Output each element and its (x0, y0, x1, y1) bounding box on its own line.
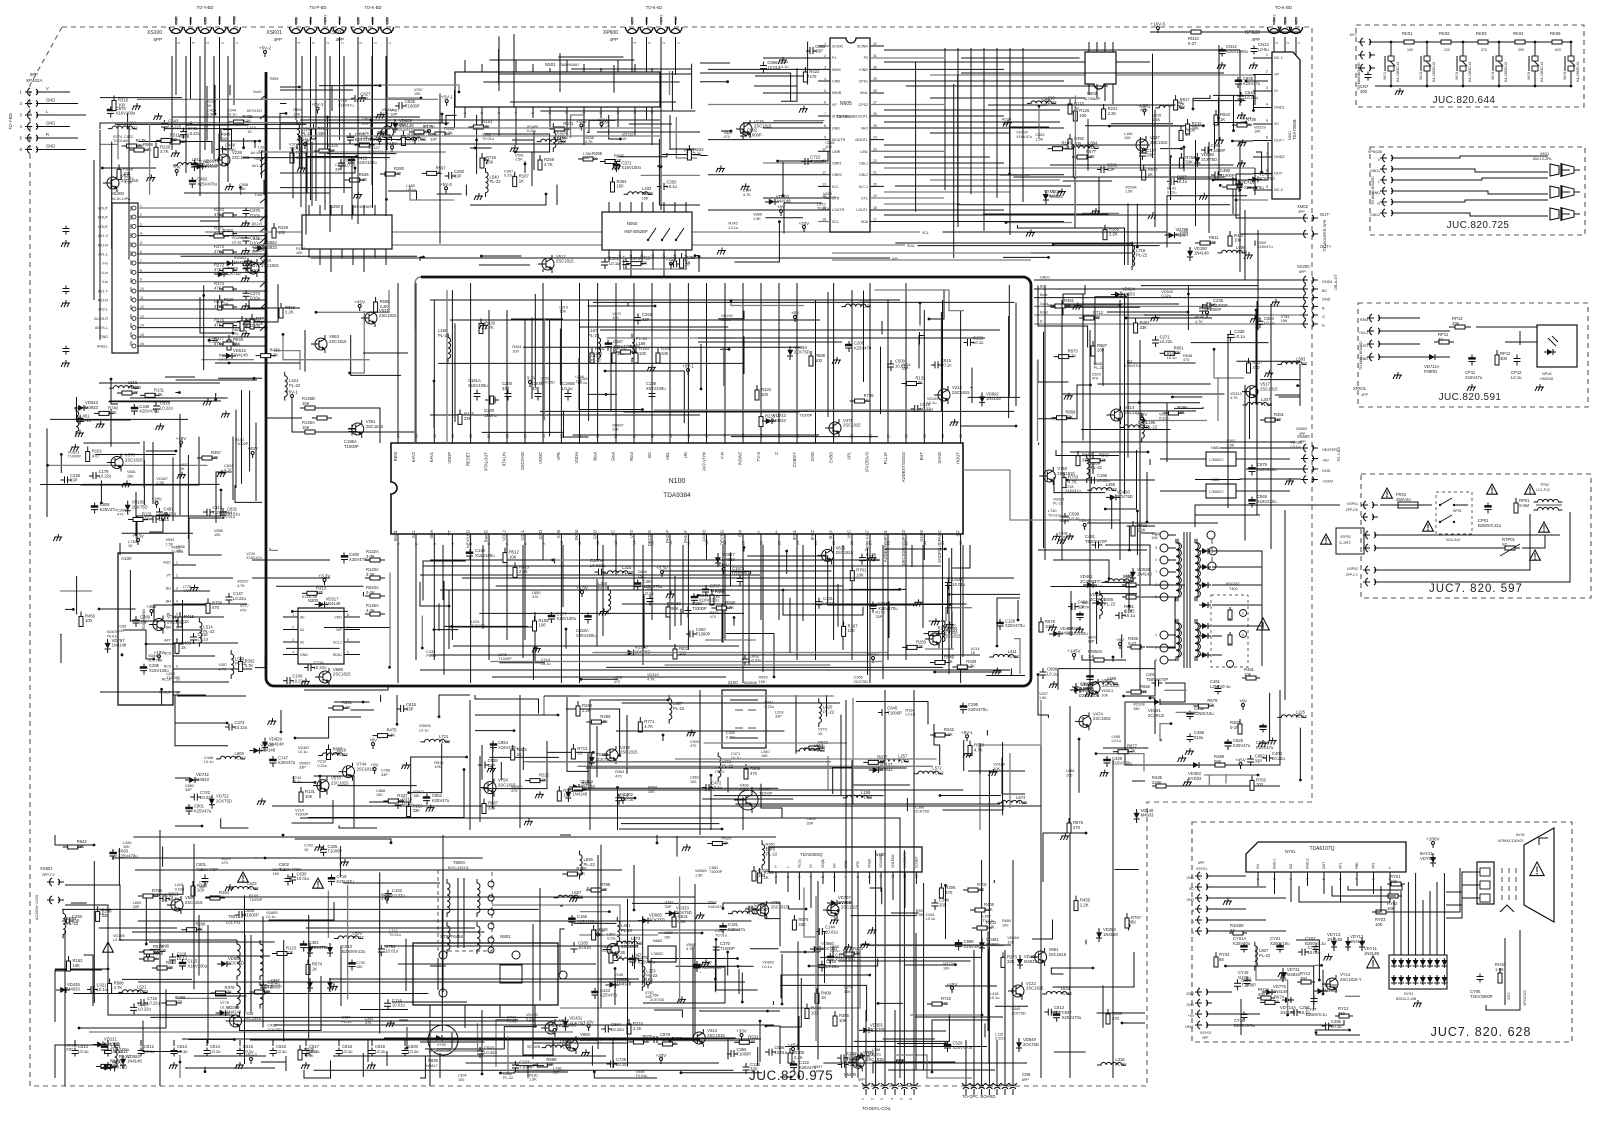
wire (1003, 256, 1049, 258)
capacitor C486 (1189, 734, 1191, 737)
svg-text:IFVO/SVO: IFVO/SVO (865, 451, 870, 472)
wire (351, 709, 374, 711)
CRT gun 2 (1480, 881, 1490, 889)
svg-text:470: 470 (615, 774, 621, 778)
key switch SK03 (KA-1965D-41) (1462, 42, 1464, 56)
svg-text:1K: 1K (592, 156, 597, 161)
wire (1038, 443, 1040, 446)
svg-text:M4933: M4933 (1287, 972, 1300, 977)
capacitor (1042, 668, 1044, 672)
capacitor (electrolytic) (104, 1043, 106, 1047)
wire (1097, 1012, 1145, 1014)
resistor (380, 173, 385, 175)
svg-text:2SC1815: 2SC1815 (620, 750, 638, 755)
wire (routing) (420, 574, 760, 576)
diode (211, 795, 213, 799)
N400 pin 11 (VOLENK) (892, 872, 894, 900)
svg-text:470: 470 (222, 861, 228, 865)
wire (1054, 1051, 1086, 1053)
wire (498, 49, 500, 84)
N605 pin 4 (CIN0) (818, 80, 830, 82)
wire (698, 341, 842, 343)
resistor (843, 621, 845, 626)
capacitor (electrolytic) (872, 602, 874, 606)
wire (1299, 728, 1301, 780)
svg-text:R650: R650 (1002, 919, 1011, 923)
T400 core (1183, 532, 1185, 668)
N100 pin 52 (Gout) top stub (615, 283, 617, 443)
resistor (902, 646, 907, 648)
svg-text:OUT-: OUT- (1320, 212, 1331, 217)
svg-text:LED: LED (386, 17, 390, 24)
N605 pin 1 (SCINC) (818, 45, 830, 47)
power flag (597, 933, 600, 936)
svg-text:470: 470 (809, 74, 817, 79)
svg-text:2SC1815: 2SC1815 (1049, 952, 1067, 957)
tuner A100 pin 1 (AGC) (173, 564, 196, 566)
wire (1111, 497, 1113, 529)
inductor (1097, 1062, 1126, 1065)
capacitor (637, 314, 639, 318)
wire (1160, 739, 1162, 741)
wire (1100, 593, 1137, 595)
N601 pin 5 (VC) (1253, 123, 1272, 125)
svg-text:0.22u: 0.22u (527, 129, 537, 133)
wire (434, 629, 458, 631)
wire (189, 518, 225, 555)
power +5V-2 flag (264, 51, 267, 54)
key switch SK02 (KA-1965D-41) (1426, 42, 1428, 56)
svg-text:10K: 10K (397, 798, 405, 803)
capacitor (323, 845, 325, 849)
svg-text:XS801: XS801 (40, 866, 53, 871)
N100 pin 1 (Brsd1) bottom stub (397, 534, 399, 683)
N605 pin 18 (LOUTL) (870, 209, 1004, 211)
ground (1328, 954, 1330, 957)
N100 pin 46 (V-in) top stub (724, 283, 726, 443)
ground (1182, 755, 1184, 758)
svg-text:L0.1u: L0.1u (144, 1049, 155, 1054)
T400 rectifier diode (1199, 550, 1202, 552)
connector X5300 pin 3 (LOUT) (138, 225, 266, 227)
resistor (586, 889, 591, 891)
svg-text:PL-22: PL-22 (1296, 361, 1308, 366)
svg-text:GND2: GND2 (919, 529, 924, 541)
resistor (1175, 95, 1177, 100)
svg-text:VK05: VK05 (1527, 72, 1531, 80)
svg-text:NY01: NY01 (1285, 849, 1296, 854)
wire (406, 1027, 408, 1048)
svg-text:GND: GND (1186, 1003, 1194, 1007)
capacitor CY17 (1313, 996, 1315, 999)
resistor (793, 915, 795, 920)
svg-text:2CK75D: 2CK75D (870, 1027, 886, 1032)
svg-text:GND: GND (46, 98, 55, 103)
wire (1246, 80, 1268, 82)
svg-text:L0.1u: L0.1u (729, 226, 739, 230)
N605 pin 5 (MINR) (763, 92, 830, 94)
svg-text:620: 620 (1555, 48, 1561, 52)
wire (audio routing) (884, 167, 1255, 169)
wire (945, 885, 947, 939)
svg-text:REM: REM (1360, 318, 1368, 322)
diode (1045, 190, 1047, 194)
wire (540, 110, 695, 112)
svg-text:L0.1u: L0.1u (1234, 334, 1245, 339)
capacitor (133, 1003, 135, 1007)
inductor (199, 618, 202, 647)
ground (681, 996, 683, 999)
svg-text:11: 11 (891, 874, 895, 878)
svg-text:33P: 33P (133, 905, 140, 909)
svg-text:100: 100 (848, 628, 856, 633)
resistor (612, 177, 614, 182)
resistor (240, 657, 242, 662)
wire (945, 985, 997, 987)
T400 focus pot (1240, 610, 1247, 617)
ground (1275, 299, 1277, 302)
svg-text:L0.22u: L0.22u (1272, 756, 1285, 761)
resistor (80, 612, 82, 617)
svg-text:1K: 1K (622, 137, 627, 141)
wire (280, 86, 299, 88)
svg-text:33K: 33K (1274, 417, 1282, 422)
svg-text:VD126: VD126 (943, 962, 955, 966)
resistor (1077, 451, 1079, 456)
svg-text:56: 56 (542, 434, 546, 438)
N400 pin 2 (I-) (787, 872, 789, 892)
svg-text:L0.22u: L0.22u (233, 596, 246, 601)
resistor (209, 235, 214, 237)
N801 pin stub 2 (464, 1005, 466, 1028)
svg-text:L0.1u: L0.1u (541, 662, 551, 666)
svg-text:T1000P: T1000P (887, 710, 902, 715)
wire flyback out10 (1284, 510, 1286, 700)
N050 pin bottom 0 (608, 250, 610, 262)
svg-text:EW: EW (738, 530, 743, 537)
wire (127, 113, 129, 129)
wire (897, 1043, 946, 1045)
N100 pin 24 (IFIN2) bottom stub (815, 534, 817, 660)
svg-text:HEATER: HEATER (1322, 448, 1337, 452)
wire (221, 129, 260, 141)
capacitor left col (65, 226, 67, 229)
N100 pin 43 (C) top stub (778, 283, 780, 443)
svg-text:5: 5 (824, 89, 826, 93)
svg-text:L0.1u: L0.1u (1299, 1010, 1310, 1015)
ground (484, 157, 486, 160)
svg-text:T1000P: T1000P (737, 1052, 752, 1057)
svg-text:P1: P1 (832, 56, 836, 60)
T400 focus/screen divider (dashed box) (1211, 595, 1248, 667)
wire (1160, 724, 1171, 741)
N100 pin 42 (CVBS/Y) top stub (796, 283, 798, 443)
ground (651, 364, 653, 367)
svg-text:2.2K: 2.2K (966, 664, 975, 669)
svg-text:1.5K: 1.5K (695, 873, 703, 877)
svg-text:REM: REM (218, 16, 222, 24)
N400 pin 5 (VO(B)) (822, 872, 824, 884)
capacitor CY1B (1243, 1012, 1245, 1015)
resistor R461 (1122, 584, 1126, 586)
svg-text:33P: 33P (750, 1067, 758, 1072)
resistor (328, 707, 333, 709)
wire (367, 1039, 369, 1062)
svg-text:AV2-Y: AV2-Y (98, 289, 109, 293)
svg-text:Gout: Gout (611, 451, 616, 461)
wire (943, 800, 1004, 810)
svg-text:10K: 10K (615, 955, 623, 960)
capacitor (1240, 92, 1242, 96)
wire (441, 114, 443, 123)
ground (860, 1052, 862, 1055)
svg-text:L0.1u: L0.1u (666, 184, 677, 189)
svg-text:XP600: XP600 (603, 30, 618, 36)
resistor (140, 394, 145, 396)
N605 pin 22 (CBL1) (870, 162, 1004, 164)
capacitor (159, 508, 161, 512)
capacitor (618, 794, 620, 798)
svg-text:T1000P: T1000P (810, 159, 825, 164)
svg-text:TO-K-BD: TO-K-BD (1275, 5, 1292, 10)
svg-text:KA-1965D-41: KA-1965D-41 (1468, 61, 1472, 82)
svg-text:2: 2 (480, 112, 484, 114)
wire (routing) (600, 329, 1000, 331)
transistor (247, 262, 259, 274)
wire (710, 775, 712, 830)
inductor (1277, 715, 1306, 718)
wire (185, 1067, 275, 1069)
wire flyback out4 (1107, 659, 1126, 661)
ground (720, 165, 722, 168)
svg-text:N050: N050 (627, 221, 638, 226)
NY01 pin 9 (V) (1389, 872, 1391, 902)
svg-text:2: 2 (221, 42, 225, 44)
resistor (810, 351, 812, 356)
svg-text:9: 9 (599, 112, 603, 114)
svg-text:1N4148: 1N4148 (1137, 572, 1152, 577)
resistor RY12 (1335, 1015, 1339, 1017)
svg-text:L0.1u: L0.1u (711, 785, 722, 790)
wire (1193, 101, 1246, 108)
wire (1232, 140, 1248, 142)
wire (731, 436, 878, 438)
svg-text:30: 30 (873, 65, 877, 69)
capacitor (931, 364, 935, 366)
diode (1070, 689, 1074, 691)
svg-text:L0.1u: L0.1u (643, 591, 654, 596)
svg-text:X25V470u: X25V470u (953, 1045, 973, 1050)
wire (565, 629, 567, 649)
wire (454, 90, 456, 128)
wire from connector (310, 46, 312, 200)
wire (1132, 780, 1145, 782)
resistor RK01 (1398, 41, 1404, 43)
svg-text:SY01: SY01 (1404, 992, 1413, 996)
IC N501 (key scan, wide flat box) (455, 72, 660, 107)
svg-text:VDY01A: VDY01A (1420, 856, 1436, 861)
capacitor (electrolytic) (133, 404, 135, 408)
diode (810, 948, 814, 950)
svg-text:2SC1815-Y: 2SC1815-Y (1340, 977, 1362, 982)
wire (48, 464, 208, 466)
N350 pin stub 6 (374, 205, 376, 215)
capacitor (electrolytic) (999, 619, 1001, 623)
svg-text:470: 470 (710, 615, 716, 619)
svg-text:12: 12 (596, 541, 600, 545)
resistor (1195, 242, 1200, 244)
wire (1115, 869, 1139, 871)
wire (940, 795, 1001, 797)
power flag (304, 143, 307, 146)
wire (138, 141, 212, 154)
capacitor (686, 633, 690, 635)
capacitor (electrolytic) (351, 156, 353, 160)
svg-text:38: 38 (868, 434, 872, 438)
ground (871, 554, 873, 557)
svg-text:6PP: 6PP (1198, 861, 1205, 865)
wire from connector (1295, 46, 1297, 60)
ground (917, 599, 919, 602)
ground (380, 112, 382, 115)
wire (1038, 549, 1147, 551)
wire (533, 1042, 627, 1044)
XSY01 pin wire G (1212, 919, 1266, 921)
wire (968, 396, 1020, 398)
IC N350 HEF4053BP (302, 215, 392, 249)
svg-text:GND: GND (1186, 876, 1194, 880)
wire (556, 59, 602, 61)
svg-text:470: 470 (1092, 377, 1098, 381)
inductor (1243, 402, 1272, 405)
svg-text:VG2: VG2 (1507, 992, 1511, 1000)
resistor (1104, 225, 1106, 230)
capacitor (electrolytic) (191, 177, 193, 181)
resistor RH18 (1257, 997, 1261, 999)
wire (audio routing) (884, 61, 1150, 63)
resistor (539, 155, 541, 160)
wire (201, 359, 254, 361)
coil L185 PL-22 (448, 334, 451, 363)
NY01 pin 1 (IN1) (1257, 872, 1259, 886)
svg-text:HS0038: HS0038 (1540, 377, 1553, 381)
svg-text:AV1-R: AV1-R (98, 243, 109, 247)
svg-text:XSP02: XSP02 (1347, 567, 1358, 571)
svg-text:6PP: 6PP (30, 72, 38, 77)
wire (528, 1066, 532, 1078)
svg-text:32: 32 (959, 541, 963, 545)
svg-text:1N4148: 1N4148 (112, 643, 127, 648)
wire (audio routing) (930, 132, 1010, 134)
svg-text:300: 300 (1500, 356, 1508, 361)
svg-text:100: 100 (977, 887, 985, 892)
inductor (297, 120, 300, 149)
N100 pin 29 (DECSDEM/SIFIN2) bottom stub (905, 534, 907, 660)
left col wires (99, 130, 101, 340)
svg-text:4.7K: 4.7K (224, 468, 232, 472)
resistor (251, 314, 253, 319)
ground (207, 398, 209, 401)
svg-text:1: 1 (341, 42, 345, 44)
resistor R482 (1239, 719, 1241, 724)
svg-text:PL-22: PL-22 (1123, 578, 1135, 583)
N050 pin bottom 7 (685, 250, 687, 270)
wire (928, 608, 972, 621)
svg-text:X16V220u: X16V220u (1257, 499, 1277, 504)
resistor RY01 (1387, 883, 1391, 885)
wire flyback out7 (1125, 702, 1189, 765)
key switch SK04 (KA-1965D-41) (1498, 42, 1500, 56)
svg-text:1K: 1K (865, 1055, 870, 1059)
gray wire KAV2b (414, 330, 416, 443)
svg-text:2-2K: 2-2K (366, 590, 375, 595)
svg-text:PL-22: PL-22 (621, 928, 633, 933)
capacitor (228, 593, 230, 597)
wire (567, 697, 589, 771)
svg-text:2CK75D: 2CK75D (915, 810, 930, 814)
svg-text:SCL: SCL (411, 529, 416, 538)
power flag (647, 982, 650, 985)
svg-text:VOL1: VOL1 (520, 529, 525, 540)
ground (514, 145, 516, 148)
svg-text:TA7358AP: TA7358AP (1083, 97, 1101, 101)
svg-text:100: 100 (512, 349, 518, 353)
resistor (839, 953, 844, 955)
warning triangle (103, 942, 114, 952)
ground key ladder (1399, 88, 1401, 91)
svg-text:KA-1965D-41: KA-1965D-41 (1504, 61, 1508, 82)
resistor (1180, 126, 1182, 131)
svg-text:X16V100u: X16V100u (556, 616, 576, 621)
svg-text:+8V: +8V (369, 738, 377, 743)
diode VDY11 (1361, 937, 1363, 941)
wire (731, 552, 769, 586)
wire from connector (219, 46, 221, 160)
ground (1064, 833, 1066, 836)
wire (759, 1021, 761, 1062)
svg-text:+8V: +8V (1322, 459, 1329, 463)
power flag (378, 139, 381, 142)
svg-text:L0.1u: L0.1u (623, 797, 634, 802)
svg-text:47K: 47K (214, 249, 222, 254)
svg-text:3: 3 (176, 587, 178, 591)
svg-text:GND: GND (1322, 469, 1331, 473)
svg-text:WP: WP (336, 628, 342, 632)
warning triangle CRT (1530, 862, 1544, 876)
N605 pin 29 (CPS1) (870, 80, 1064, 82)
resistor (1085, 460, 1090, 462)
wire (587, 393, 617, 395)
wire (1204, 775, 1258, 785)
spark gap diode (1393, 958, 1395, 960)
ground (967, 751, 969, 754)
T800A terminal (488, 909, 494, 915)
connector XSY01 6PP (1198, 872, 1200, 880)
IC N050 HEF4052BP (AV switch) (602, 212, 692, 250)
inductor (1089, 682, 1118, 685)
wire (850, 588, 907, 590)
wire (669, 71, 671, 95)
wire (560, 929, 565, 974)
svg-text:2: 2 (326, 42, 330, 44)
N400 pin 10 (VGUARD) (880, 872, 882, 892)
svg-text:33K: 33K (798, 922, 806, 927)
resistor (328, 745, 330, 750)
svg-text:10K: 10K (844, 990, 851, 994)
svg-text:I(1)SET: I(1)SET (914, 856, 918, 868)
resistor (940, 883, 942, 888)
wire (593, 301, 1014, 303)
